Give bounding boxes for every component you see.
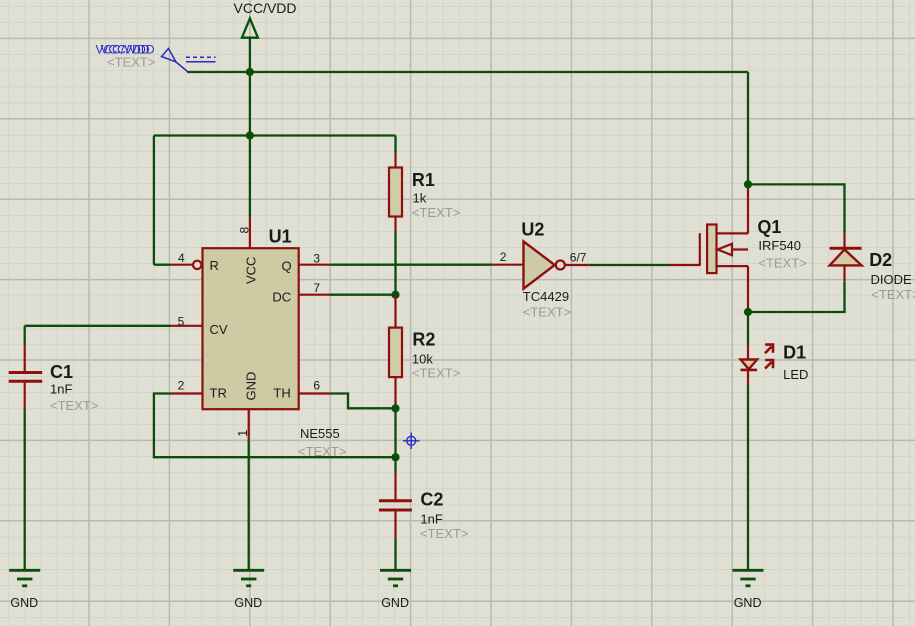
- LED D1 cathode bar: [741, 369, 758, 372]
- svg-text:6: 6: [313, 379, 320, 393]
- svg-text:TR: TR: [210, 386, 227, 401]
- Q1 body arrow: [718, 244, 733, 255]
- svg-text:2: 2: [178, 379, 185, 393]
- svg-text:<TEXT>: <TEXT>: [523, 305, 571, 320]
- svg-text:Q: Q: [282, 259, 292, 274]
- svg-text:DIODE: DIODE: [871, 272, 913, 287]
- svg-text:<TEXT>: <TEXT>: [107, 55, 155, 70]
- pin 1 stub: [248, 409, 250, 441]
- svg-text:<TEXT>: <TEXT>: [420, 526, 468, 541]
- Q1 drain stub: [717, 232, 749, 234]
- svg-text:U2: U2: [521, 220, 544, 240]
- wire D1 cathode to ground: [747, 384, 749, 569]
- ground symbol D1: [733, 570, 764, 586]
- Q1 body line: [717, 248, 749, 250]
- capacitor C1 plates: [9, 373, 43, 382]
- wire TH jog to R2 bottom: [330, 394, 396, 409]
- pin 2 stub: [171, 392, 203, 394]
- svg-text:8: 8: [237, 227, 251, 234]
- wire R2 node down: [394, 408, 396, 457]
- pin 6 stub: [299, 392, 330, 394]
- svg-text:1: 1: [235, 430, 250, 437]
- capacitor C2 plates: [379, 501, 412, 510]
- svg-text:1k: 1k: [413, 191, 427, 206]
- wire source node to D1: [747, 312, 749, 344]
- capacitor C2 top pin: [394, 473, 396, 500]
- svg-text:GND: GND: [734, 596, 762, 610]
- Q1 drain wire: [747, 184, 749, 233]
- ground symbol C2: [380, 570, 411, 586]
- wire U2 output to Q1 gate: [588, 264, 669, 266]
- svg-text:GND: GND: [234, 596, 262, 610]
- wire C2 to ground: [394, 538, 396, 569]
- svg-text:GND: GND: [381, 596, 409, 610]
- svg-text:<TEXT>: <TEXT>: [412, 366, 460, 381]
- wire drain node to D2 top: [748, 184, 845, 233]
- svg-text:C1: C1: [50, 362, 73, 382]
- resistor R1 body: [389, 168, 402, 217]
- wire CV to C1: [25, 325, 171, 327]
- pin 8 stub: [249, 217, 251, 249]
- resistor R2 bottom pin: [394, 377, 396, 408]
- svg-text:5: 5: [178, 314, 185, 328]
- wire C1 to ground: [24, 409, 26, 569]
- svg-text:GND: GND: [244, 372, 259, 401]
- svg-text:NE555: NE555: [300, 426, 340, 441]
- node junction TR rail / C2: [391, 453, 399, 461]
- svg-text:<TEXT>: <TEXT>: [871, 287, 915, 302]
- wire node to C2: [394, 457, 396, 472]
- svg-text:D1: D1: [783, 342, 806, 362]
- wire DC to R1/R2 junction: [330, 294, 396, 296]
- svg-text:1nF: 1nF: [50, 382, 72, 397]
- wire into R pin: [154, 264, 171, 266]
- resistor R2 top pin: [394, 295, 396, 328]
- inverter U2 TC4429 body: [524, 241, 555, 288]
- pin 3 stub: [299, 264, 330, 266]
- svg-text:Q1: Q1: [757, 217, 781, 237]
- U2 output bubble: [556, 261, 565, 270]
- svg-text:<TEXT>: <TEXT>: [758, 256, 806, 271]
- svg-text:7: 7: [313, 281, 320, 295]
- wire label flag: [162, 49, 216, 72]
- Q1 gate pin stub: [669, 264, 700, 266]
- Q1 source wire: [747, 266, 749, 312]
- svg-text:CV: CV: [210, 322, 228, 337]
- node junction source / D1: [744, 308, 752, 316]
- svg-text:TH: TH: [273, 386, 290, 401]
- svg-text:GND: GND: [10, 596, 38, 610]
- node junction drain / D2: [744, 180, 752, 188]
- svg-text:R2: R2: [412, 330, 435, 350]
- origin marker (blue crosshair): [403, 433, 420, 450]
- svg-text:VCC: VCC: [244, 257, 259, 284]
- wire horizontal rail to R1: [154, 134, 396, 136]
- diode D2 cathode bar: [830, 247, 862, 250]
- wire pin1 to ground: [248, 441, 250, 569]
- svg-text:IRF540: IRF540: [758, 238, 801, 253]
- wire left loop down to R pin: [153, 136, 155, 265]
- power symbol VCC/VDD: [242, 18, 258, 37]
- svg-text:VCC/VDD: VCC/VDD: [234, 0, 297, 16]
- svg-text:D2: D2: [869, 250, 892, 270]
- wire Q output to U2: [330, 264, 492, 266]
- svg-text:<TEXT>: <TEXT>: [412, 205, 460, 220]
- capacitor C1 top pin: [24, 345, 26, 372]
- LED D1 emission arrow 1: [765, 345, 773, 354]
- svg-text:6/7: 6/7: [570, 251, 587, 265]
- svg-text:LED: LED: [783, 367, 808, 382]
- svg-text:R1: R1: [412, 170, 435, 190]
- svg-text:10k: 10k: [412, 352, 433, 367]
- node junction DC/R1/R2: [391, 291, 399, 299]
- transistor Q1 gate electrode: [699, 233, 701, 266]
- resistor R1 bottom pin: [394, 216, 396, 232]
- svg-text:U1: U1: [269, 226, 292, 246]
- diode D2 cathode pin: [843, 233, 845, 248]
- wire top rail: [187, 71, 748, 73]
- Q1 source stub: [717, 265, 749, 267]
- wire top rail down to drain node: [747, 72, 749, 184]
- ground symbol C1: [9, 570, 40, 586]
- op-amp U1 NE555 body: [203, 248, 299, 409]
- LED D1 cathode pin: [747, 370, 749, 384]
- svg-text:C2: C2: [420, 490, 443, 510]
- net label VCC/VDD (blue, doubled): [96, 43, 155, 57]
- capacitor C2 bottom pin: [394, 512, 396, 539]
- node junction TH/R2: [391, 404, 399, 412]
- pin 4 inversion bubble: [193, 261, 201, 269]
- svg-text:4: 4: [178, 251, 185, 265]
- resistor R1 top pin: [394, 153, 396, 168]
- LED D1 emission arrow 2: [765, 360, 773, 369]
- wire rail down to R1: [394, 136, 396, 154]
- wire TR loop to bottom rail: [154, 394, 396, 458]
- svg-text:TC4429: TC4429: [523, 289, 569, 304]
- capacitor C1 wire from CV rail: [24, 326, 26, 345]
- LED D1 triangle: [741, 360, 758, 370]
- resistor R2 body: [389, 328, 402, 378]
- svg-text:2: 2: [500, 250, 507, 264]
- wire D2 anode to source node: [748, 282, 845, 312]
- wire VCC down to pin8 row: [249, 72, 251, 217]
- wire VCC symbol to top rail: [249, 38, 251, 72]
- svg-text:1nF: 1nF: [420, 512, 442, 527]
- pin 5 stub: [171, 325, 203, 327]
- svg-text:DC: DC: [272, 290, 291, 305]
- pin 7 stub: [299, 294, 330, 296]
- node junction top rail / VCC: [246, 68, 254, 76]
- U2 input pin stub: [492, 264, 524, 266]
- diode D2 triangle: [830, 250, 862, 266]
- pin 4 stub: [171, 264, 193, 266]
- U2 output pin stub: [565, 264, 589, 266]
- capacitor C1 bottom pin: [24, 383, 26, 409]
- svg-text:R: R: [210, 258, 219, 273]
- ground symbol pin1: [233, 570, 264, 586]
- svg-text:<TEXT>: <TEXT>: [50, 398, 98, 413]
- svg-text:3: 3: [313, 251, 320, 265]
- diode D2 anode pin: [843, 267, 845, 282]
- LED D1 anode pin: [747, 344, 749, 360]
- transistor Q1 channel plate: [707, 225, 716, 274]
- wire R1 to DC node: [394, 232, 396, 295]
- node junction at R1 rail: [246, 131, 254, 139]
